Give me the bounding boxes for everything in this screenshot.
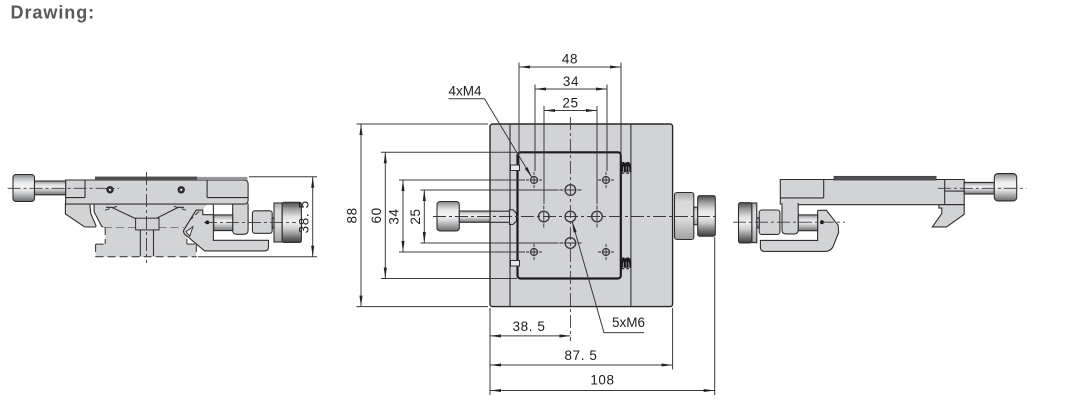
- svg-text:4xM4: 4xM4: [449, 83, 483, 98]
- svg-text:34: 34: [563, 74, 579, 89]
- svg-text:108: 108: [590, 373, 614, 388]
- svg-text:60: 60: [369, 207, 384, 223]
- svg-text:34: 34: [387, 208, 402, 224]
- svg-text:38. 5: 38. 5: [512, 319, 545, 334]
- svg-text:38. 5: 38. 5: [297, 200, 312, 233]
- svg-text:88: 88: [345, 207, 360, 223]
- svg-text:48: 48: [562, 52, 578, 67]
- svg-text:87. 5: 87. 5: [564, 348, 597, 363]
- svg-text:5xM6: 5xM6: [612, 315, 645, 330]
- svg-text:25: 25: [562, 95, 578, 110]
- svg-text:Drawing:: Drawing:: [11, 3, 96, 23]
- svg-text:25: 25: [408, 208, 423, 224]
